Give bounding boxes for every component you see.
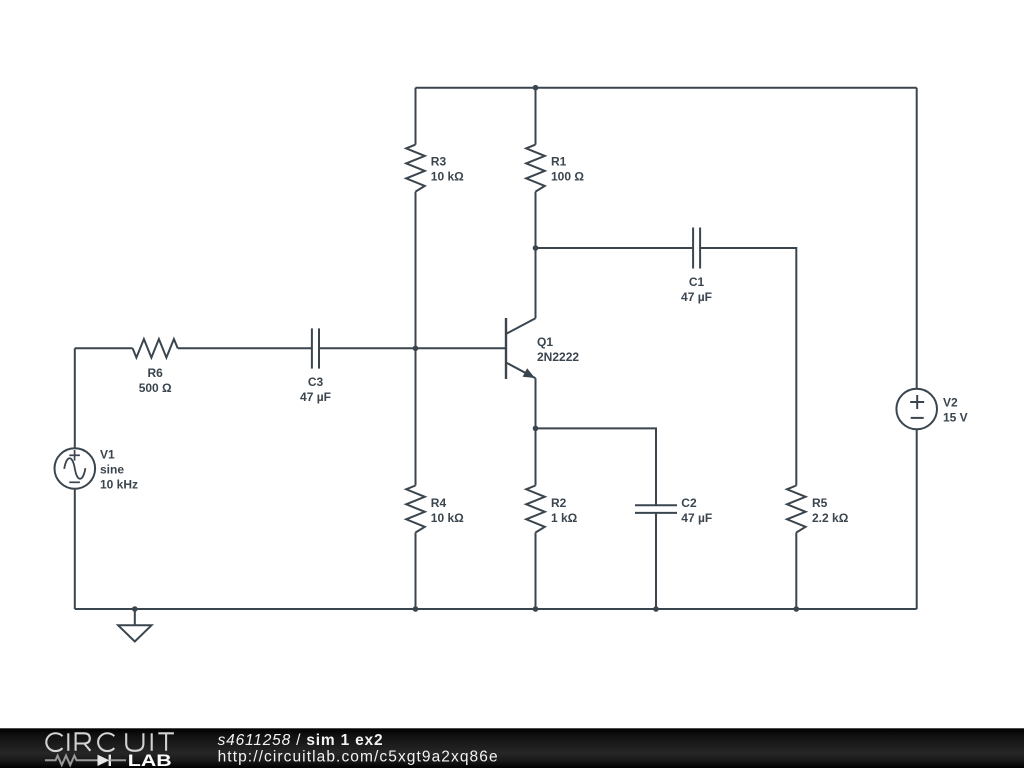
junction dot: collector node [533, 245, 539, 251]
junction dot: R4 / bottom rail [413, 606, 419, 612]
svg-text:R1: R1 [551, 155, 567, 169]
transistor Q1 (NPN 2N2222) [506, 318, 536, 379]
wire: C3 to Q1 base [319, 347, 505, 349]
wire: bottom ground rail [75, 608, 917, 610]
junction dot: top rail / R1 [533, 85, 539, 91]
junction dot: base node / R3 / R4 [413, 346, 419, 352]
capacitor C1 (47 µF) [693, 228, 700, 269]
R6 value label [139, 366, 172, 395]
resistor R3 (10 kΩ) [406, 145, 425, 192]
svg-text:10 kΩ: 10 kΩ [431, 511, 464, 525]
svg-text:sine: sine [100, 463, 124, 477]
wire: R2 to bottom rail [535, 533, 537, 610]
junction dot: C2 / bottom rail [653, 606, 659, 612]
Q1 value label [537, 335, 579, 364]
junction dot: R2 / bottom rail [533, 606, 539, 612]
source V1 (sine 10 kHz) [55, 448, 96, 489]
wire: C1 to R5 top [700, 248, 796, 486]
svg-text:R5: R5 [812, 496, 828, 510]
svg-text:http://circuitlab.com/c5xgt9a2: http://circuitlab.com/c5xgt9a2xq86e [218, 749, 498, 766]
resistor R1 (100 Ω) [526, 145, 545, 192]
svg-text:47 µF: 47 µF [681, 290, 712, 304]
svg-text:V1: V1 [100, 448, 115, 462]
wire: R5 to bottom rail [795, 533, 797, 610]
svg-text:R3: R3 [431, 155, 447, 169]
svg-text:10 kHz: 10 kHz [100, 478, 138, 492]
resistor R4 (10 kΩ) [406, 486, 425, 533]
wire: top supply rail [416, 87, 917, 89]
wire: V1 - to bottom rail [74, 489, 76, 609]
resistor R2 (1 kΩ) [526, 486, 545, 533]
capacitor C3 (47 µF) [312, 328, 319, 368]
C1 value label [681, 275, 712, 304]
svg-text:Q1: Q1 [537, 335, 553, 349]
wire: base node to R4 [415, 348, 417, 485]
svg-text:R4: R4 [431, 496, 447, 510]
C3 value label [300, 375, 331, 404]
svg-text:15 V: 15 V [943, 411, 968, 425]
wire: Q1 emitter to R2 [535, 378, 537, 485]
R1 value label [551, 155, 584, 184]
svg-text:C1: C1 [689, 275, 705, 289]
svg-text:C2: C2 [681, 496, 697, 510]
V2 value label [943, 396, 968, 425]
R5 value label [812, 496, 849, 525]
svg-text:R6: R6 [148, 366, 164, 380]
svg-text:47 µF: 47 µF [681, 511, 712, 525]
R2 value label [551, 496, 578, 525]
wire: R3 to base node [415, 192, 417, 349]
svg-text:s4611258 / sim 1 ex2: s4611258 / sim 1 ex2 [218, 732, 383, 749]
wire: R1 to collector node [535, 192, 537, 319]
junction dot: emitter node [533, 426, 539, 432]
svg-text:V2: V2 [943, 396, 958, 410]
svg-text:47 µF: 47 µF [300, 390, 331, 404]
wire: input node down to V1 + [74, 348, 76, 448]
wire: C2 to bottom rail [655, 513, 657, 609]
svg-text:2N2222: 2N2222 [537, 350, 579, 364]
V1 value label [100, 448, 138, 492]
footer logo resistor-diode squiggle [45, 755, 126, 766]
voltage source V2 (DC 15 V) [896, 389, 937, 430]
svg-text:10 kΩ: 10 kΩ [431, 170, 464, 184]
svg-text:R2: R2 [551, 496, 567, 510]
wire: right rail from top rail to V2 + [916, 88, 918, 389]
svg-text:C3: C3 [308, 375, 324, 389]
ground symbol [118, 609, 151, 642]
resistor R5 (2.2 kΩ) [787, 486, 806, 533]
svg-text:LAB: LAB [128, 752, 172, 768]
wire: emitter node to C2 top [536, 428, 657, 505]
wire: top rail to R3 [415, 88, 417, 145]
capacitor C2 (47 µF) [635, 505, 677, 513]
wire: V2 - to bottom rail [916, 429, 918, 609]
wire: input node to R6 [75, 347, 133, 349]
C2 value label [681, 496, 712, 525]
footer bar background [0, 728, 1024, 768]
svg-text:100 Ω: 100 Ω [551, 170, 584, 184]
svg-text:1 kΩ: 1 kΩ [551, 511, 578, 525]
svg-text:2.2 kΩ: 2.2 kΩ [812, 511, 849, 525]
junction dot: R5 / bottom rail [794, 606, 800, 612]
wire: collector node to C1 [536, 247, 694, 249]
svg-text:500 Ω: 500 Ω [139, 381, 172, 395]
R4 value label [431, 496, 464, 525]
wire: top rail to R1 body [535, 88, 537, 145]
footer logo wordmark CIRCUIT [46, 733, 174, 751]
resistor R6 (500 Ω) [133, 339, 178, 358]
junction dot: ground / bottom rail [132, 606, 138, 612]
wire: R6 to C3 [178, 347, 312, 349]
R3 value label [431, 155, 464, 184]
wire: R4 to bottom rail [415, 533, 417, 610]
